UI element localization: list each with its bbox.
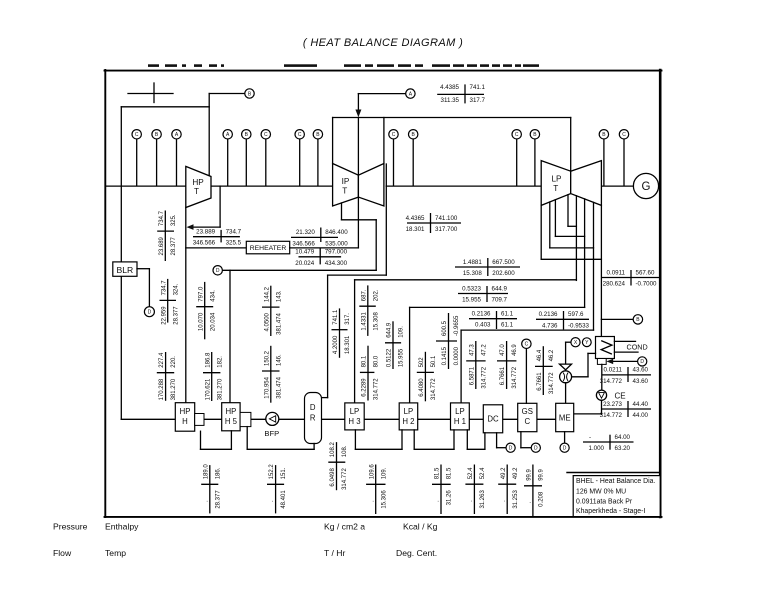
drain LP H3 down [354, 430, 356, 449]
svg-text:709.7: 709.7 [492, 297, 508, 304]
gland/bleed stem to connector B [603, 139, 605, 186]
condenser leader line top [614, 340, 635, 342]
svg-text:597.6: 597.6 [568, 311, 584, 318]
wire LP extraction to LP H2 horizontal [410, 306, 585, 308]
feedwater line LP H2 to LP H1 [418, 418, 451, 420]
svg-text:HP: HP [180, 407, 191, 416]
svg-text:28.377: 28.377 [173, 306, 179, 325]
value cross b4 (109.6/. | 109./15.306) rotated [366, 464, 387, 514]
svg-text:741.100: 741.100 [435, 215, 458, 222]
connector circle C [512, 130, 521, 139]
wire LP nest 4 horizontal [541, 258, 601, 260]
drain up into deaerator [313, 444, 315, 450]
wire IP exhaust down [385, 164, 387, 275]
svg-text:314.772: 314.772 [549, 372, 555, 394]
svg-text:99.9: 99.9 [527, 468, 533, 480]
gland/bleed stem to connector B [317, 139, 319, 186]
feedwater line HP H to HP H5 [204, 418, 222, 420]
svg-text:311.35: 311.35 [441, 97, 460, 104]
svg-text:-0.9655: -0.9655 [454, 315, 460, 336]
wire LP exhaust branch to connector B [601, 318, 633, 320]
svg-text:346.566: 346.566 [193, 240, 216, 247]
svg-text:99.9: 99.9 [539, 468, 545, 480]
svg-text:734.7: 734.7 [161, 280, 167, 296]
drain ME down to connector D [564, 432, 566, 443]
value cross W1 (0.0911/280.624 | 567.60/-0.7000) [602, 269, 659, 287]
LP heater 2 box LP H2 [399, 403, 418, 430]
wire extraction branch down to HP H5 [229, 270, 231, 402]
svg-text:434.300: 434.300 [325, 260, 348, 267]
svg-text:4.736: 4.736 [542, 322, 558, 329]
IP turbine IPT [333, 164, 384, 207]
feedwater line BFP to deaerator [279, 418, 305, 420]
connector circle D (DC drain) [506, 443, 515, 452]
wire hotwell to CE pump [601, 364, 603, 390]
value cross RH3 (10.479/20.024 | 797.000/434.300) [295, 248, 347, 267]
turbine header line IP-LP segment [386, 185, 541, 187]
arrowhead into crossover [355, 110, 361, 118]
svg-text:846.400: 846.400 [325, 229, 348, 236]
svg-text:567.60: 567.60 [636, 269, 655, 276]
svg-text:314.772: 314.772 [431, 378, 437, 400]
value cross CD1 (0.0211/314.772 | 43.60/43.60) [600, 367, 651, 385]
svg-text:D: D [310, 403, 316, 412]
HP heater 6 box HP H [175, 403, 194, 432]
connector circle C [389, 130, 398, 139]
wire drain into condenser [588, 352, 596, 354]
svg-text:314.772: 314.772 [374, 378, 380, 400]
svg-text:44.40: 44.40 [633, 401, 649, 408]
value cross b7 (49.2/. | 49.2/31.253) rotated [498, 465, 519, 515]
svg-text:DC: DC [487, 415, 499, 424]
value cross E (797.0/10.070 | 434./20.034) rotated [196, 282, 216, 339]
gland/bleed stem to connector C [516, 139, 518, 186]
svg-text:346.566: 346.566 [292, 240, 315, 247]
svg-text:0.403: 0.403 [475, 322, 491, 329]
svg-text:Deg. Cent.: Deg. Cent. [396, 548, 437, 558]
connector circle Y [582, 338, 591, 347]
wire LP exhaust left edge down [540, 205, 542, 259]
turbine header line left segment [106, 185, 186, 187]
svg-text:HP: HP [192, 178, 204, 187]
svg-text:D: D [563, 446, 567, 452]
connector circle B [313, 130, 322, 139]
title block box BHEL [573, 476, 660, 517]
LP inlet downcomer [570, 118, 572, 172]
svg-text:COND: COND [627, 342, 648, 351]
svg-text:48.401: 48.401 [281, 490, 287, 509]
connector circle X [571, 338, 580, 347]
drain up into LP H2 [401, 430, 403, 449]
svg-text:REHEATER: REHEATER [250, 245, 287, 252]
value cross B (734.7/22.959 | 324./28.377) rotated [160, 279, 180, 325]
connector circle C (gland steam) [522, 339, 531, 348]
svg-text:GS: GS [522, 407, 533, 416]
drawing frame right border [659, 70, 662, 517]
svg-text:317.700: 317.700 [435, 226, 458, 233]
clipped tiny text marks on top border [148, 64, 539, 67]
svg-text:T: T [194, 187, 199, 196]
drain GS C down [520, 432, 522, 448]
svg-text:C: C [392, 132, 396, 138]
svg-text:20.034: 20.034 [210, 312, 216, 331]
connector circle D (IP extraction) [213, 266, 222, 275]
wire connector X to valve [566, 341, 571, 343]
svg-text:4.4385: 4.4385 [440, 84, 459, 91]
wire IP exhaust to deaerator horizontal [328, 274, 387, 276]
gland/bleed stem to connector C [136, 139, 138, 186]
connector circle A (hot reheat) [406, 89, 415, 98]
value cross F (144.2/4.0500 | 143./381.474) rotated [262, 286, 282, 336]
svg-text:535.000: 535.000 [325, 240, 348, 247]
value cross CD2 (23.273/314.772 | 44.40/44.00) [600, 401, 651, 419]
svg-text:28.377: 28.377 [171, 236, 177, 255]
wire into deaerator top [322, 397, 328, 399]
value cross b1 (189.0/. | 186./28.377) rotated [201, 464, 221, 514]
value cross RH2 (21.320/346.566 | 846.400/535.000) [291, 228, 348, 248]
connector circle B [242, 130, 251, 139]
svg-text:0.5122: 0.5122 [387, 348, 393, 367]
connector circle D (boiler blowdown) [144, 307, 154, 317]
svg-text:314.772: 314.772 [481, 366, 487, 388]
turbine header line HP-IP segment [211, 185, 333, 187]
connector circle A [223, 130, 232, 139]
svg-text:BFP: BFP [264, 429, 279, 438]
svg-text:15.308: 15.308 [463, 270, 482, 277]
svg-text:797.0: 797.0 [198, 286, 204, 302]
wire LP nest 1 horizontal [568, 225, 576, 227]
svg-text:109.: 109. [381, 467, 387, 479]
svg-text:Khaperkheda - Stage-I: Khaperkheda - Stage-I [576, 508, 645, 515]
value cross P (47.3/6.5871 | 47.2/314.772) rotated [466, 341, 487, 389]
svg-text:H 5: H 5 [225, 417, 238, 426]
wire LP extraction 2 drop pipe [584, 199, 586, 308]
condenser hotwell box [597, 359, 606, 365]
value cross R (46.4/6.7661 | 46.2/314.772) rotated [535, 346, 555, 395]
HP H drain cooler square [195, 414, 204, 426]
wire hot reheat up to IP turbine [357, 197, 359, 248]
connector circle C [619, 130, 628, 139]
value cross X1 (4.4385/311.35 | 741.1/317.7) [437, 84, 485, 104]
gland/bleed stem to connector B [534, 139, 536, 186]
svg-text:63.20: 63.20 [615, 445, 631, 452]
value cross L (80.1/6.2289 | 80.0/314.772) rotated [360, 346, 380, 401]
wire LP extraction 1 down [567, 195, 569, 227]
svg-text:D: D [509, 446, 513, 452]
svg-text:151.: 151. [281, 467, 287, 479]
svg-text:LP: LP [404, 407, 414, 416]
svg-text:43.60: 43.60 [633, 378, 649, 385]
svg-text:G: G [642, 181, 651, 193]
svg-text:21.320: 21.320 [296, 229, 315, 236]
svg-text:220.: 220. [171, 356, 177, 368]
svg-text:61.1: 61.1 [501, 311, 514, 318]
svg-text:314.772: 314.772 [600, 412, 623, 419]
mixing device circle )( [560, 371, 572, 383]
svg-text:D: D [640, 359, 644, 365]
IP inlet box right edge [383, 118, 385, 164]
svg-text:182.: 182. [217, 356, 223, 368]
svg-text:150.2: 150.2 [264, 350, 270, 366]
svg-text:28.377: 28.377 [215, 490, 221, 509]
svg-text:314.772: 314.772 [512, 366, 518, 388]
svg-text:381.474: 381.474 [276, 312, 282, 334]
svg-text:0.5323: 0.5323 [462, 285, 481, 292]
reheater box [246, 241, 289, 254]
feedwater line HP H5 to BFP [251, 418, 266, 420]
wire BLR to connector D [137, 268, 149, 270]
feedwater line GS C to ME [537, 418, 556, 420]
svg-text:T: T [342, 187, 347, 196]
wire LP extraction to LP H1 horizontal [461, 329, 593, 331]
drawing frame top border [105, 70, 662, 72]
svg-text:186.: 186. [215, 467, 221, 479]
svg-text:15.955: 15.955 [399, 348, 405, 367]
svg-text:434.: 434. [210, 290, 216, 302]
HP turbine HPT [186, 166, 211, 207]
svg-text:LP: LP [350, 407, 360, 416]
svg-text:126 MW 0% MU: 126 MW 0% MU [576, 488, 626, 495]
connector circle D (GS C drain) [531, 443, 540, 452]
svg-text:-0.9533: -0.9533 [568, 322, 590, 329]
svg-text:10.070: 10.070 [198, 312, 204, 331]
boiler box BLR [113, 262, 137, 276]
wire hot reheat A down [357, 94, 359, 112]
wire LP extraction 3 down [549, 202, 551, 248]
wire LP extraction 2 down [554, 200, 556, 237]
wire drain up [587, 353, 589, 376]
wire cold reheat to reheater [186, 247, 247, 249]
svg-text:143.: 143. [276, 290, 282, 302]
wire LP nest 3 horizontal [550, 247, 594, 249]
value cross O (600.5/0.1415 | -0.9655/0.0000) rotated [436, 313, 460, 369]
arrowhead into hotwell [606, 359, 613, 364]
gland/bleed stem to connector C [623, 139, 625, 186]
drain DC to connector D [497, 447, 506, 449]
svg-text:1.4331: 1.4331 [361, 312, 367, 331]
main ejector box ME [556, 403, 574, 431]
wire IP extraction 1 down 2 [375, 220, 377, 270]
wire LP H2 steam inlet down [409, 307, 411, 403]
svg-text:1.000: 1.000 [589, 445, 605, 452]
datum cross mark vertical [153, 83, 155, 103]
wire HP gland leak to HP casing [191, 226, 221, 228]
svg-text:C: C [524, 417, 530, 426]
generator G [633, 173, 658, 198]
value cross A (734.7/23.689 | 325./28.377) rotated [157, 210, 177, 261]
svg-text:734.7: 734.7 [159, 210, 165, 226]
IP inlet box left edge [332, 118, 334, 164]
svg-text:741.1: 741.1 [470, 84, 486, 91]
value cross K (644.9/0.5122 | 109./15.955) rotated [385, 321, 405, 369]
svg-text:31.263: 31.263 [480, 490, 486, 509]
value cross T1 (0.2136/4.736 | 597.6/-0.9533) [536, 311, 590, 329]
svg-text:6.7661: 6.7661 [500, 366, 506, 385]
value cross b6 (52.4/. | 52.4/31.263) rotated [465, 465, 486, 515]
wire IP extraction 1 to connector D [222, 269, 376, 271]
value cross H (741.1/4.2000 | 317./18.301) rotated [332, 308, 352, 357]
svg-text:Enthalpy: Enthalpy [105, 522, 139, 532]
svg-text:49.2: 49.2 [501, 467, 507, 479]
drain DC down [496, 433, 498, 448]
svg-text:687.: 687. [361, 289, 367, 301]
wire IP extraction 1 horizontal [342, 219, 377, 221]
svg-text:H: H [182, 417, 188, 426]
svg-text:325.: 325. [171, 214, 177, 226]
svg-text:0.0911ata Back Pr: 0.0911ata Back Pr [576, 499, 633, 506]
svg-text:-0.7000: -0.7000 [636, 281, 658, 288]
svg-text:C: C [135, 132, 139, 138]
HP heater 5 box HP H5 [222, 403, 240, 431]
svg-text:0.2136: 0.2136 [539, 311, 558, 318]
value cross C (227.4/170.288 | 220./381.270) rotated [157, 352, 177, 401]
drain GS C to connector D [521, 447, 531, 449]
svg-text:186.8: 186.8 [205, 352, 211, 368]
wire LP extraction to LP H3 horizontal [355, 279, 577, 281]
condenser box COND [596, 337, 615, 359]
wire CE pump discharge down [601, 400, 603, 414]
feedwater line LP H3 to LP H2 [364, 418, 399, 420]
value cross U1 (1.4881/15.308 | 667.500/202.600) [455, 258, 520, 277]
value cross b5 (81.5/. | 81.5/31.26) rotated [432, 465, 453, 515]
svg-text:381.270: 381.270 [217, 378, 223, 400]
svg-text:CE: CE [615, 391, 626, 400]
svg-text:502: 502 [419, 357, 425, 368]
boiler feed pump BFP [266, 412, 279, 425]
svg-text:4.4365: 4.4365 [406, 215, 425, 222]
svg-text:46.2: 46.2 [549, 349, 555, 361]
svg-text:ME: ME [559, 414, 571, 423]
condenser leader line bottom [614, 351, 638, 353]
wire CE discharge to ME [574, 413, 602, 415]
wire connector C to GS C [525, 349, 527, 404]
drain HP H5 down [246, 427, 248, 450]
IP inlet center line [357, 118, 359, 176]
svg-text:15.955: 15.955 [462, 297, 481, 304]
svg-text:152.2: 152.2 [269, 464, 275, 480]
LP turbine LPT [541, 161, 601, 206]
wire HP exhaust down (cold reheat + to HP heater) [185, 208, 187, 403]
svg-text:108.2: 108.2 [330, 442, 336, 458]
svg-text:Pressure: Pressure [53, 522, 88, 532]
wire main steam down to HP turbine inlet [208, 94, 210, 177]
wire LP H3 steam inlet down [354, 280, 356, 403]
svg-text:HP: HP [225, 407, 236, 416]
drain up into DC [484, 433, 486, 450]
svg-text:146.: 146. [276, 354, 282, 366]
svg-text:BLR: BLR [117, 265, 134, 275]
wire boiler riser / feed line left vertical [120, 107, 122, 420]
svg-text:0.0211: 0.0211 [604, 367, 623, 374]
svg-text:317.7: 317.7 [470, 97, 486, 104]
svg-text:202.600: 202.600 [492, 270, 515, 277]
gland steam cooler box GS C [518, 403, 537, 431]
svg-text:18.301: 18.301 [345, 335, 351, 354]
svg-text:23.273: 23.273 [603, 401, 622, 408]
wire LP nest 2 horizontal [555, 235, 584, 237]
connector circle D (ME drain) [560, 443, 569, 452]
svg-text:Temp: Temp [105, 548, 126, 558]
svg-text:109.: 109. [399, 326, 405, 338]
svg-text:734.7: 734.7 [226, 229, 242, 236]
svg-text:D: D [534, 446, 538, 452]
gland/bleed stem to connector B [156, 139, 158, 186]
svg-text:LP: LP [551, 175, 562, 184]
svg-text:6.2289: 6.2289 [362, 378, 368, 397]
connector circle B (main steam) [245, 89, 254, 98]
wire LP extraction 3 drop pipe [593, 202, 595, 330]
svg-text:170.954: 170.954 [264, 376, 270, 398]
wire main steam to connector B [209, 93, 245, 95]
connector circle B [152, 130, 161, 139]
LP heater 1 box LP H1 [451, 403, 470, 430]
value cross b3 (108.2/6.0498 | 108./314.772) rotated [328, 442, 348, 491]
value cross S1 (0.2136/0.403 | 61.1/61.1) [469, 311, 517, 330]
wire mixing device drain right [572, 376, 588, 378]
svg-text:46.9: 46.9 [512, 344, 518, 356]
svg-text:H 3: H 3 [348, 417, 360, 426]
drain LP H1 down [466, 430, 468, 449]
drawing frame left border [104, 70, 106, 517]
svg-text:31.253: 31.253 [513, 490, 519, 509]
svg-text:18.301: 18.301 [406, 226, 425, 233]
svg-text:314.772: 314.772 [342, 468, 348, 490]
wire down to connector D [148, 269, 150, 307]
svg-text:324.: 324. [173, 283, 179, 295]
svg-text:47.0: 47.0 [500, 344, 506, 356]
value cross V1 (0.5323/15.955 | 644.9/709.7) [458, 285, 508, 303]
line above title block [567, 472, 660, 474]
gland/bleed stem to connector C [299, 139, 301, 186]
feedwater line deaerator to LP H3 [322, 418, 345, 420]
svg-text:47.3: 47.3 [469, 344, 475, 356]
svg-text:61.1: 61.1 [501, 322, 514, 329]
gland/bleed stem to connector C [265, 139, 267, 186]
svg-text:Flow: Flow [53, 548, 72, 558]
connector circle A [172, 130, 181, 139]
svg-text:0.0911: 0.0911 [607, 269, 626, 276]
wire make-up from connector D [611, 360, 638, 362]
svg-text:31.26: 31.26 [447, 490, 453, 506]
svg-text:325.5: 325.5 [226, 240, 242, 247]
drain cooler box DC [483, 405, 502, 433]
svg-text:D: D [216, 268, 220, 274]
svg-text:4.0500: 4.0500 [264, 312, 270, 331]
svg-text:280.624: 280.624 [603, 281, 626, 288]
gland/bleed stem to connector B [412, 139, 414, 186]
connector circle C [132, 130, 141, 139]
svg-text:23.689: 23.689 [159, 236, 165, 255]
wire LP extraction 1 drop pipe [575, 196, 577, 281]
svg-text:23.889: 23.889 [196, 229, 215, 236]
svg-text:49.2: 49.2 [513, 467, 519, 479]
svg-text:50.1: 50.1 [431, 355, 437, 367]
svg-text:170.621: 170.621 [205, 378, 211, 400]
wire LP exhaust right edge to condenser [600, 205, 602, 336]
svg-text:15.308: 15.308 [373, 312, 379, 331]
gland/bleed stem to connector A [176, 139, 178, 186]
svg-text:644.9: 644.9 [492, 285, 508, 292]
connector circle B [599, 130, 608, 139]
deaerator DR [305, 393, 322, 444]
svg-text:797.000: 797.000 [325, 249, 348, 256]
value cross b8 (99.9/. | 99.9/0.208) rotated [524, 465, 545, 517]
svg-text:C: C [525, 342, 529, 348]
svg-text:C: C [264, 132, 268, 138]
svg-text:22.959: 22.959 [161, 306, 167, 325]
svg-text:43.60: 43.60 [633, 367, 649, 374]
svg-text:667.500: 667.500 [492, 259, 515, 266]
